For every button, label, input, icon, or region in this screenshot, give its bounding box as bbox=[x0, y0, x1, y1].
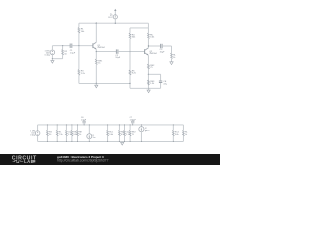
node dots strip top bbox=[47, 124, 174, 125]
svg-text:gm·v: gm·v bbox=[145, 130, 149, 132]
svg-text:3.6k: 3.6k bbox=[109, 134, 113, 136]
dependent source I1 strip bbox=[87, 125, 92, 141]
resistor RE1 bbox=[95, 52, 97, 84]
wire bypass branch bbox=[148, 74, 160, 88]
resistor R5 lower bias stage2 bbox=[129, 52, 131, 84]
label R5 bbox=[132, 71, 137, 75]
label R1 bbox=[81, 29, 85, 33]
resistor RC2 bbox=[148, 28, 150, 46]
node dots strip bottom bbox=[47, 141, 174, 142]
label Q1 bbox=[97, 45, 105, 49]
dependent source I2 strip bbox=[139, 125, 144, 141]
node stage2 ground junction bbox=[148, 88, 149, 89]
capacitor Cup1 strip bbox=[82, 120, 85, 125]
resistor R8s strip bbox=[129, 125, 131, 141]
capacitor CE bbox=[159, 81, 162, 83]
voltage source V2 plus sign bbox=[110, 13, 112, 15]
label R3 bbox=[81, 71, 86, 75]
node emitter junction bbox=[96, 51, 97, 52]
svg-text:0 deg: 0 deg bbox=[30, 135, 35, 137]
label C2 bbox=[115, 55, 121, 59]
svg-text:LAB: LAB bbox=[24, 159, 34, 164]
label RL bbox=[173, 55, 177, 59]
svg-text:0 deg: 0 deg bbox=[45, 55, 51, 57]
node collector1 rail junction bbox=[96, 23, 97, 24]
capacitor C2 bbox=[116, 49, 118, 53]
source VS strip bbox=[35, 125, 40, 141]
wire input line to base bbox=[72, 45, 93, 47]
label VS strip bbox=[30, 131, 35, 137]
node source resistor junction bbox=[62, 45, 63, 46]
label R4 bbox=[132, 34, 136, 38]
capacitor C3 bbox=[161, 44, 163, 48]
node collector junction bbox=[148, 45, 149, 46]
wire input line bbox=[52, 45, 70, 47]
svg-text:3.6k: 3.6k bbox=[175, 134, 179, 136]
label RE1 bbox=[98, 61, 103, 65]
wire strip top rail bbox=[38, 124, 184, 126]
svg-text:10µF: 10µF bbox=[115, 57, 121, 59]
voltage source V1 bbox=[50, 46, 55, 59]
resistor RS strip bbox=[47, 125, 49, 141]
resistor R6s strip bbox=[119, 125, 121, 141]
resistor R4s strip bbox=[77, 125, 79, 141]
transistor Q1 bbox=[92, 43, 94, 48]
resistor R9s strip bbox=[172, 125, 174, 141]
resistor RE2b bbox=[148, 80, 150, 85]
label C3 bbox=[160, 49, 166, 53]
node base divider junction bbox=[78, 45, 79, 46]
svg-text:2N3904: 2N3904 bbox=[149, 53, 157, 55]
wire strip bottom rail bbox=[38, 140, 184, 142]
wire source bottom loop bbox=[52, 58, 62, 60]
label RE2b bbox=[150, 81, 155, 85]
resistor R4 upper bias stage2 bbox=[129, 28, 131, 52]
node supply junction bbox=[115, 23, 116, 24]
svg-text:7.5k: 7.5k bbox=[59, 134, 63, 136]
resistor R1s strip bbox=[56, 125, 58, 141]
resistor R3 lower bias stage1 bbox=[78, 46, 80, 84]
resistor R7s strip bbox=[124, 125, 126, 141]
svg-text:12.6µF: 12.6µF bbox=[130, 119, 137, 121]
svg-text:24 V: 24 V bbox=[108, 17, 113, 19]
node divider2 rail junction bbox=[129, 83, 130, 84]
ground stage1 bbox=[95, 83, 98, 87]
node source ground junction bbox=[52, 58, 53, 59]
resistor R2 source shunt 50 bbox=[62, 46, 64, 59]
label I1 strip bbox=[93, 135, 96, 139]
wire output corner bbox=[162, 46, 171, 53]
resistor R10s strip bbox=[183, 125, 185, 141]
svg-text:1.5µF: 1.5µF bbox=[70, 52, 76, 54]
label R2 bbox=[64, 51, 68, 55]
ground strip bbox=[121, 141, 124, 145]
svg-text:2m: 2m bbox=[93, 137, 96, 139]
voltage source V2 bbox=[113, 15, 117, 23]
node ground junction stage1 bbox=[96, 83, 97, 84]
wire C2 to Q2 base bbox=[118, 51, 145, 53]
label V2 value bbox=[108, 15, 113, 19]
label Cup1 bbox=[81, 117, 87, 121]
wire output line bbox=[148, 45, 160, 47]
ground stage2 bbox=[147, 88, 150, 92]
CircuitLab logo bbox=[12, 155, 37, 164]
node divider2 base junction bbox=[129, 51, 130, 52]
capacitor Cup2 strip bbox=[131, 120, 134, 125]
label Cup2 bbox=[130, 117, 137, 121]
wire stage1 bottom rail bbox=[79, 82, 130, 84]
resistor R3s strip bbox=[71, 125, 73, 141]
svg-text:1k: 1k bbox=[79, 134, 81, 136]
VCC supply arrow flag bbox=[114, 9, 116, 15]
resistor R1 bbox=[78, 23, 80, 46]
label Q2 bbox=[149, 51, 157, 55]
svg-text:1k: 1k bbox=[185, 134, 187, 136]
label C1 bbox=[70, 50, 76, 54]
resistor R5s strip bbox=[107, 125, 109, 141]
wire VCC top rail bbox=[79, 22, 148, 24]
wire step down to stage2 ground rail bbox=[130, 83, 161, 88]
transistor Q2 bbox=[144, 49, 146, 54]
node bypass junction bbox=[148, 74, 149, 75]
label RC2 bbox=[150, 34, 155, 38]
label V1 bbox=[44, 50, 50, 56]
resistor RE2a bbox=[148, 64, 150, 88]
ground below RL bbox=[170, 62, 173, 65]
svg-text:2N3904: 2N3904 bbox=[97, 47, 105, 49]
svg-text:1.5µF: 1.5µF bbox=[81, 119, 87, 121]
svg-text:http://circuitlab.com/c/9pt9j2: http://circuitlab.com/c/9pt9j26h377 bbox=[57, 158, 109, 162]
wire emitter line stage1 bbox=[96, 51, 116, 53]
resistor R2s strip bbox=[66, 125, 68, 141]
wire rail jog right bbox=[130, 23, 148, 28]
ground below V1 bbox=[51, 59, 54, 64]
resistor RL bbox=[171, 53, 173, 62]
label RE2a bbox=[150, 65, 155, 69]
svg-text:10µF: 10µF bbox=[160, 51, 166, 53]
footer bar bbox=[0, 154, 220, 165]
label CE bbox=[163, 81, 167, 85]
capacitor C1 bbox=[70, 44, 72, 48]
label I2 strip bbox=[145, 128, 149, 132]
